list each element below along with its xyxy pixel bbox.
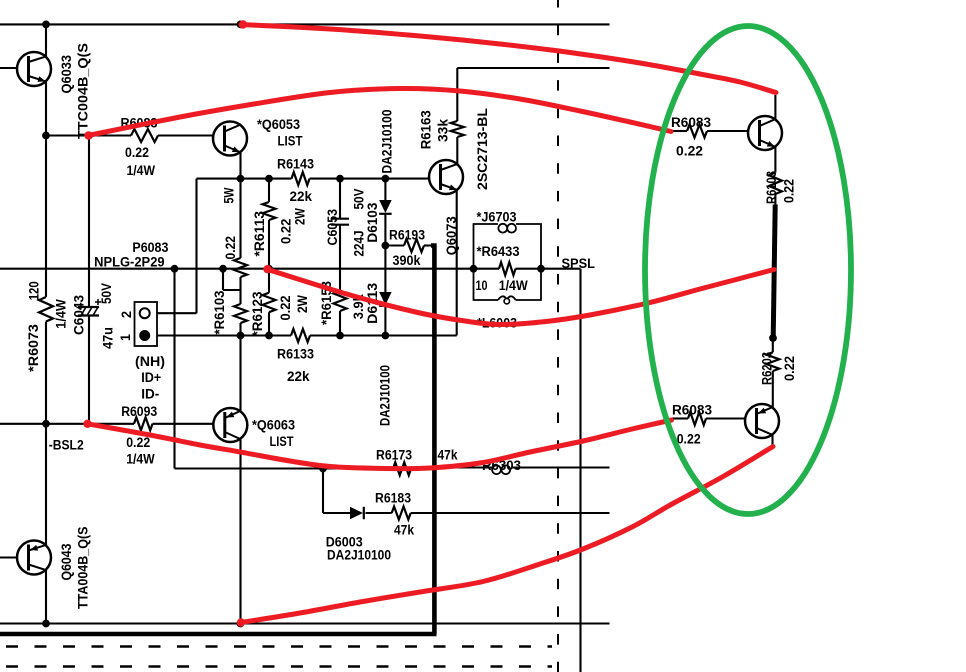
svg-text:47k: 47k bbox=[438, 448, 458, 463]
svg-text:R6173: R6173 bbox=[376, 448, 412, 463]
svg-text:47u: 47u bbox=[101, 327, 116, 349]
svg-text:10: 10 bbox=[476, 278, 488, 293]
svg-text:DA2J10100: DA2J10100 bbox=[327, 547, 391, 562]
svg-text:SPSL: SPSL bbox=[562, 256, 596, 271]
svg-text:Q6073: Q6073 bbox=[444, 216, 459, 255]
svg-text:0.22: 0.22 bbox=[278, 296, 293, 321]
svg-text:*Q6053: *Q6053 bbox=[257, 117, 300, 132]
svg-text:0.22: 0.22 bbox=[677, 432, 701, 447]
svg-text:(NH): (NH) bbox=[135, 354, 165, 369]
svg-text:ID-: ID- bbox=[141, 387, 159, 402]
svg-text:0.22: 0.22 bbox=[125, 145, 149, 160]
svg-text:Q6043: Q6043 bbox=[59, 543, 74, 580]
svg-text:R6083: R6083 bbox=[672, 403, 712, 418]
svg-text:2W: 2W bbox=[295, 295, 310, 313]
svg-text:1/4W: 1/4W bbox=[127, 163, 156, 178]
svg-text:*J6703: *J6703 bbox=[477, 209, 517, 224]
svg-text:DA2J10100: DA2J10100 bbox=[380, 110, 395, 174]
svg-text:-BSL2: -BSL2 bbox=[49, 438, 84, 453]
svg-text:Q6033: Q6033 bbox=[59, 55, 74, 94]
svg-text:33k: 33k bbox=[436, 119, 451, 142]
svg-text:NPLG-2P29: NPLG-2P29 bbox=[94, 254, 165, 269]
svg-text:0.22: 0.22 bbox=[676, 144, 703, 159]
svg-text:50V: 50V bbox=[99, 283, 114, 304]
svg-text:*Q6063: *Q6063 bbox=[252, 418, 295, 433]
svg-text:R6193: R6193 bbox=[389, 228, 425, 243]
svg-text:TTC004B_Q(S: TTC004B_Q(S bbox=[76, 43, 91, 139]
svg-text:1: 1 bbox=[118, 334, 133, 341]
svg-text:R6133: R6133 bbox=[277, 347, 314, 362]
svg-text:*R6123: *R6123 bbox=[250, 291, 265, 336]
svg-text:*R6073: *R6073 bbox=[26, 324, 41, 372]
svg-text:C6043: C6043 bbox=[72, 295, 87, 335]
svg-text:LIST: LIST bbox=[270, 434, 295, 449]
svg-text:2W: 2W bbox=[293, 208, 308, 225]
svg-text:2SC2713-BL: 2SC2713-BL bbox=[475, 108, 490, 190]
svg-text:22k: 22k bbox=[287, 369, 310, 384]
svg-text:47k: 47k bbox=[394, 523, 414, 538]
svg-text:0.22: 0.22 bbox=[782, 179, 797, 203]
svg-text:DA2J10100: DA2J10100 bbox=[378, 365, 393, 426]
svg-text:22k: 22k bbox=[290, 189, 313, 204]
svg-text:2: 2 bbox=[119, 311, 134, 318]
svg-text:P6083: P6083 bbox=[132, 240, 168, 255]
svg-text:TTA004B_Q(S: TTA004B_Q(S bbox=[76, 527, 91, 610]
svg-text:R6163: R6163 bbox=[419, 110, 434, 149]
svg-text:R6093: R6093 bbox=[121, 404, 157, 419]
svg-text:120: 120 bbox=[27, 281, 42, 300]
svg-text:R6183: R6183 bbox=[375, 491, 411, 506]
svg-text:D6103: D6103 bbox=[365, 202, 380, 242]
svg-text:*R6433: *R6433 bbox=[477, 244, 520, 259]
svg-text:1/4W: 1/4W bbox=[54, 299, 69, 329]
svg-text:C6053: C6053 bbox=[325, 209, 340, 246]
svg-text:0.22: 0.22 bbox=[279, 219, 294, 244]
svg-text:0.22: 0.22 bbox=[782, 356, 797, 381]
svg-text:ID+: ID+ bbox=[141, 370, 161, 385]
svg-text:*R6103: *R6103 bbox=[212, 290, 227, 334]
svg-text:390k: 390k bbox=[393, 253, 421, 268]
svg-text:R6083: R6083 bbox=[671, 115, 711, 130]
svg-text:0.22: 0.22 bbox=[126, 435, 150, 450]
svg-text:5W: 5W bbox=[222, 187, 237, 203]
svg-text:0.22: 0.22 bbox=[223, 236, 238, 260]
svg-text:R6143: R6143 bbox=[277, 157, 314, 172]
svg-text:*R6113: *R6113 bbox=[252, 211, 267, 257]
svg-text:1/4W: 1/4W bbox=[499, 278, 528, 293]
svg-text:LIST: LIST bbox=[278, 134, 304, 149]
svg-text:1/4W: 1/4W bbox=[126, 452, 155, 467]
